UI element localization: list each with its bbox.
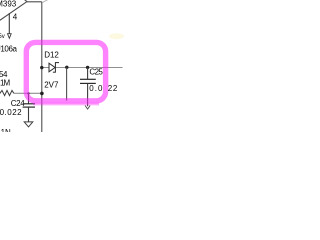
capacitor C25 top lead (87, 68, 89, 80)
pink highlight rounded rectangle (26, 42, 105, 100)
op-amp U106a triangle upper edge stub (24, 0, 27, 2)
svg-text:2V7: 2V7 (44, 81, 59, 90)
resistor R54 zigzag (0, 90, 14, 95)
svg-text:22: 22 (108, 84, 118, 93)
diode D12 zener 2V7 (49, 62, 59, 72)
background (0, 0, 128, 132)
svg-text:M393: M393 (0, 0, 17, 9)
op-amp U106a triangle lower edge (0, 2, 27, 22)
svg-text:4: 4 (13, 13, 18, 22)
pin 4 wire (8, 13, 10, 33)
capacitor C25 bottom lead (87, 84, 89, 107)
svg-text:1M: 1M (0, 79, 10, 88)
negative supply arrow (5v) (8, 34, 12, 39)
ground symbol under C24 (24, 122, 33, 127)
capacitor C24 top lead (28, 93, 30, 103)
ground chevron under C25 (85, 106, 90, 110)
output wire from op-amp apex (27, 1, 42, 3)
svg-text:C25: C25 (89, 67, 103, 76)
svg-text:U106a: U106a (0, 44, 18, 53)
svg-text:0.022: 0.022 (0, 108, 22, 117)
svg-text:1N: 1N (1, 128, 11, 132)
wire stub down from mid junction (66, 68, 68, 101)
svg-text:R54: R54 (0, 70, 8, 79)
yellow highlighter remnant top right (109, 33, 124, 39)
junction dot R/C24/node (40, 92, 44, 96)
vertical wire node A (x=41.8) full height (41, 2, 43, 132)
pink bottom edge thickening (33, 103, 99, 106)
capacitor C24 plates (23, 103, 35, 105)
svg-text:5v: 5v (0, 34, 5, 40)
junction dot at C25 (86, 66, 89, 69)
capacitor C25 plates (80, 78, 96, 80)
faint diagonal net stub (43, 0, 50, 2)
wire resistor to node (14, 92, 42, 94)
svg-text:0.0: 0.0 (89, 84, 103, 93)
horizontal net wire y=67.5 (42, 67, 123, 69)
svg-text:D12: D12 (44, 51, 59, 60)
junction dot at diode anode (40, 66, 43, 69)
capacitor C24 tap dot (27, 92, 29, 94)
capacitor C24 bottom lead (28, 107, 30, 122)
junction dot mid net (65, 66, 68, 69)
